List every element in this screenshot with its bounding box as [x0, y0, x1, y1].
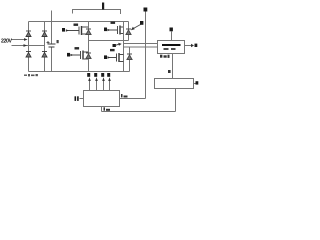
wire Q4 diode branch	[129, 47, 131, 72]
wire sensor box bottom lead	[175, 89, 177, 112]
bracket numeral 1 over inverter	[73, 3, 121, 15]
capacitor C1 branch wire	[51, 11, 53, 44]
diode D1	[26, 31, 31, 37]
label above Q2 gate	[111, 22, 116, 24]
wire AC upper lead	[12, 39, 27, 41]
wire bottom DC bus	[29, 71, 130, 73]
numeral label right of load box	[191, 44, 197, 48]
wire control box right output	[120, 98, 146, 100]
heating plate bar	[162, 44, 181, 46]
sensor box	[155, 79, 194, 89]
label at control box bottom	[104, 107, 111, 111]
diode D4	[42, 52, 47, 58]
label 11 at control box input	[75, 96, 79, 101]
gate drive arrow c	[101, 73, 105, 91]
wire inverter left rail upper	[88, 22, 90, 41]
wire inverter left rail lower	[88, 41, 90, 72]
control box	[84, 91, 120, 107]
coil dashes	[164, 48, 176, 50]
transistor Q2	[109, 26, 124, 35]
label under rectifier	[24, 74, 38, 76]
diode D3	[26, 52, 31, 58]
numeral leader arrow to mid rail node	[113, 43, 122, 47]
wire inverter right rail	[123, 22, 125, 72]
svg-text:220V: 220V	[1, 39, 12, 45]
label above Q4 gate	[110, 49, 115, 51]
label on right output wire	[121, 94, 128, 98]
gate drive arrow b	[94, 73, 98, 91]
wire top DC bus	[29, 21, 129, 23]
gate drive arrow a	[87, 73, 91, 91]
wire control box bottom lead	[101, 107, 103, 112]
wire rectifier leg 1	[28, 22, 30, 72]
capacitor plus sign	[47, 41, 50, 44]
numeral 4 above load box	[170, 28, 173, 32]
wire Q2 diode branch	[128, 22, 130, 41]
numeral leader arrow to bus corner	[131, 21, 144, 30]
transistor Q3	[72, 51, 89, 60]
wire sensor box right stub	[194, 83, 196, 85]
numeral right of sensor box	[196, 81, 199, 84]
transistor Q4	[109, 53, 124, 62]
diode DQ1	[86, 29, 91, 35]
load box (induction unit)	[158, 41, 185, 54]
label 5 below load box	[160, 55, 170, 58]
diode DQ4	[127, 54, 132, 60]
wire inverter mid rail	[89, 40, 129, 42]
label on sensor wire	[168, 70, 171, 73]
wire control box left input	[80, 98, 84, 100]
label 10 with arrow (Q3 gate)	[67, 53, 73, 57]
wire load lower	[124, 46, 158, 48]
node arrow lower AC	[24, 44, 28, 47]
wire load upper	[124, 43, 158, 45]
numeral 2 blob at top of leader	[144, 8, 148, 12]
wire load box to sensor box	[172, 54, 174, 79]
wire rectifier leg 2	[44, 22, 46, 72]
capacitor C1 plates	[48, 44, 56, 47]
transistor Q1	[67, 26, 89, 35]
wire long vertical to controller	[145, 11, 147, 99]
node arrow upper AC	[24, 38, 28, 41]
gate drive arrow d	[107, 73, 111, 91]
label near capacitor	[57, 40, 59, 43]
wire load box right output	[185, 45, 192, 47]
label 12 with arrow (Q4 gate)	[104, 55, 110, 59]
wire AC lower lead	[12, 45, 45, 47]
AC source label 220V	[1, 39, 12, 45]
diode DQ2	[126, 29, 131, 35]
diode D2	[42, 31, 47, 37]
diode DQ3	[86, 53, 91, 59]
label above Q1 gate	[74, 24, 79, 26]
label 9 with arrow (Q2 gate)	[104, 28, 110, 32]
wire load box top lead	[171, 32, 173, 41]
label 8 with arrow (Q1 gate)	[62, 28, 69, 32]
label above Q3 gate	[75, 47, 80, 49]
wire bottom return horizontal	[102, 111, 176, 113]
